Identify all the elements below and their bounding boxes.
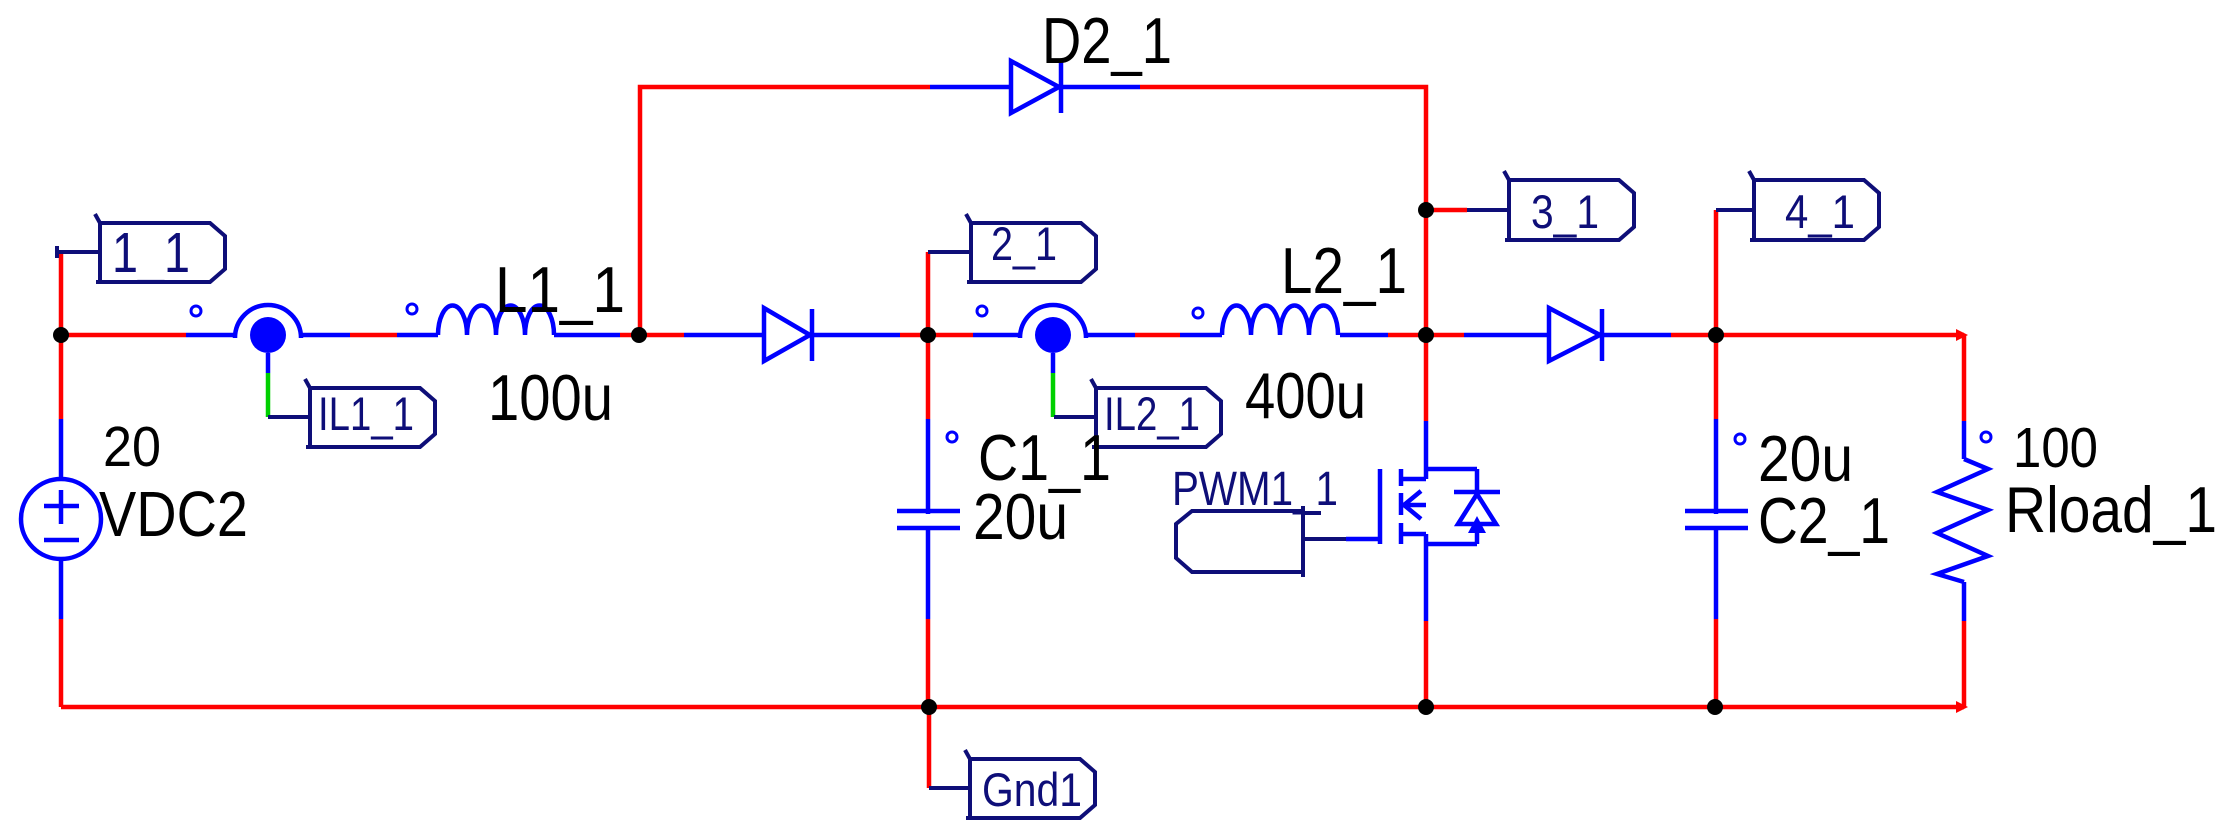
svg-text:PWM1_1: PWM1_1	[1172, 463, 1338, 516]
wire 4_1 / C2 branch	[1714, 210, 1719, 707]
wire bottom rail	[61, 705, 1964, 710]
svg-text:Rload_1: Rload_1	[2005, 473, 2217, 546]
wire top D2 loop	[640, 87, 1426, 335]
svg-text:L2_1: L2_1	[1281, 234, 1407, 307]
svg-text:20u: 20u	[973, 480, 1068, 553]
svg-text:100u: 100u	[488, 361, 613, 434]
svg-text:100: 100	[2013, 416, 2098, 480]
body diode of Q1	[1454, 469, 1500, 544]
svg-text:VDC2: VDC2	[99, 478, 248, 550]
wire left source branch	[59, 252, 64, 707]
node label 2_1	[928, 214, 1096, 282]
wire mosfet branch	[1424, 335, 1429, 707]
svg-text:Gnd1: Gnd1	[982, 763, 1082, 816]
inductor L2_1	[1180, 306, 1388, 336]
capacitor C2_1	[1685, 419, 1748, 619]
transistor Q1 mosfet	[1380, 421, 1477, 621]
wire green probe IL1	[266, 373, 271, 417]
wire 3_1 stub red	[1426, 208, 1467, 213]
svg-text:400u: 400u	[1245, 359, 1366, 432]
resistor Rload_1	[1937, 421, 1991, 621]
wire gate lead	[1346, 537, 1380, 542]
node junction dots	[53, 202, 1724, 715]
ground label Gnd1	[929, 750, 1095, 818]
node label 3_1	[1467, 171, 1634, 240]
wire C1 branch	[928, 252, 929, 788]
probe label IL2_1	[1054, 379, 1221, 447]
svg-text:D2_1: D2_1	[1042, 4, 1172, 77]
svg-text:1_1: 1_1	[112, 221, 190, 285]
diode D3 output	[1464, 308, 1671, 361]
svg-text:20: 20	[103, 415, 161, 479]
svg-text:3_1: 3_1	[1531, 185, 1599, 238]
svg-text:IL2_1: IL2_1	[1104, 387, 1200, 440]
diode D2_1 top	[930, 61, 1140, 113]
node label 1_1	[57, 214, 225, 282]
inductor L1_1	[397, 304, 620, 335]
node label 4_1	[1716, 171, 1879, 240]
wire green probe IL2	[1051, 373, 1056, 417]
diode D1	[684, 308, 900, 361]
gating block PWM1_1	[1176, 506, 1346, 577]
wire end arrows	[1956, 329, 1968, 713]
wire Rload branch	[1962, 335, 1967, 707]
svg-text:4_1: 4_1	[1785, 185, 1855, 238]
svg-text:L1_1: L1_1	[495, 253, 625, 326]
svg-text:IL1_1: IL1_1	[318, 387, 414, 440]
current sensor IL1	[186, 305, 350, 373]
svg-text:C2_1: C2_1	[1758, 484, 1890, 557]
probe label IL1_1	[268, 379, 435, 447]
svg-text:2_1: 2_1	[991, 217, 1057, 270]
voltage source VDC2	[21, 419, 101, 619]
current sensor IL2	[973, 305, 1135, 373]
wire main rail red segments	[61, 333, 1964, 338]
capacitor C1_1	[897, 419, 960, 619]
